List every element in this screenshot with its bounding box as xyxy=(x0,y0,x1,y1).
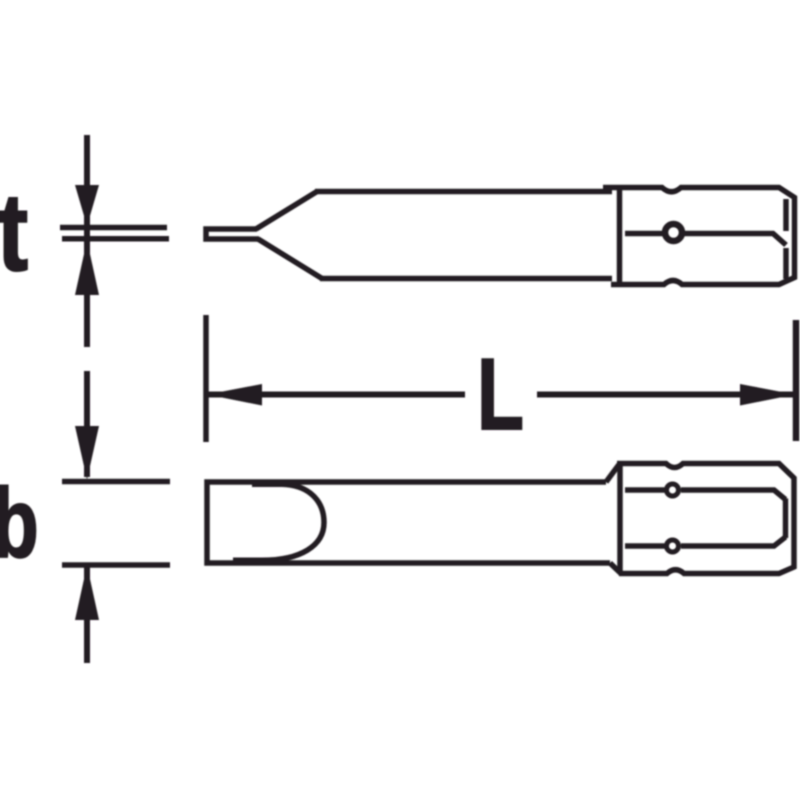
dimension L: line left segment xyxy=(206,392,465,398)
side view: hex middle edge line xyxy=(625,234,786,246)
top view: end chamfer inner line xyxy=(783,499,789,539)
top view: hex shank outline with groove notches xyxy=(617,464,794,574)
dimension b: vertical line upper xyxy=(84,371,90,477)
side view: blade tip outline xyxy=(206,229,259,239)
svg-text:t: t xyxy=(0,171,28,294)
top view: blade grind curve xyxy=(233,484,324,560)
dimension b: arrowhead up xyxy=(75,566,99,621)
dimension b: arrowhead down xyxy=(75,426,99,480)
top view: hex edge line lower xyxy=(625,537,786,546)
top view: shank left chamfer line xyxy=(617,465,623,573)
dimension t: arrowhead down xyxy=(75,185,99,226)
side view: hex shank outline with groove notches xyxy=(603,188,795,285)
svg-text:b: b xyxy=(0,468,39,578)
dimension b: vertical line lower xyxy=(84,567,90,663)
top view: hex edge line upper xyxy=(625,490,786,500)
dimension L: right extension line xyxy=(793,320,800,441)
dimension b: extension line bottom xyxy=(62,562,170,568)
top view: blade body rectangle xyxy=(207,482,610,563)
side view: body bottom line xyxy=(320,276,612,282)
side view: end chamfer inner line xyxy=(783,199,789,279)
side view: top taper xyxy=(256,192,317,230)
dimension b: extension line top xyxy=(62,479,170,485)
dimension t: extension line bottom xyxy=(62,236,169,242)
dimension t: vertical dimension line upper xyxy=(84,135,90,347)
side view: shank left chamfer line xyxy=(617,189,623,283)
dimension L: arrowhead right xyxy=(740,384,795,406)
side view: bottom taper xyxy=(258,239,322,279)
dimension L: line right segment xyxy=(537,392,796,398)
top view: left diagonal bottom xyxy=(610,563,621,574)
top view: groove ring lower xyxy=(667,540,679,552)
side view: body top line xyxy=(315,189,612,195)
top view: left diagonal top xyxy=(606,465,619,483)
side view: groove ring xyxy=(665,224,682,241)
dimension L: left extension line xyxy=(203,315,209,442)
dimension L: arrowhead left xyxy=(207,384,262,406)
top view: groove ring upper xyxy=(667,484,679,496)
svg-text:L: L xyxy=(477,339,524,452)
dimension t: extension line top xyxy=(60,225,167,231)
dimension t: arrowhead up xyxy=(75,241,99,296)
